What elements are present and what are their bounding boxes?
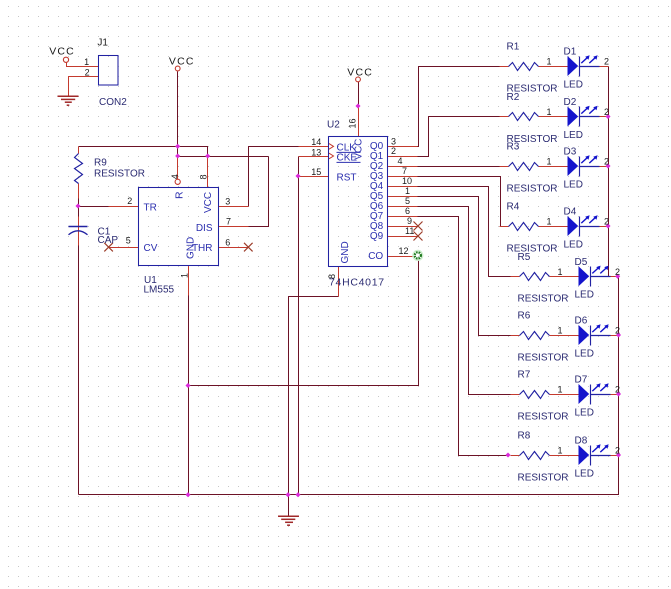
svg-text:LM555: LM555	[144, 284, 175, 295]
svg-text:7: 7	[402, 166, 407, 176]
svg-text:2: 2	[127, 196, 132, 206]
svg-text:2: 2	[604, 107, 609, 117]
svg-text:RESISTOR: RESISTOR	[518, 472, 569, 483]
svg-text:R2: R2	[507, 92, 520, 103]
svg-text:J1: J1	[97, 38, 108, 49]
svg-text:4: 4	[170, 174, 180, 179]
svg-text:1: 1	[558, 385, 563, 395]
svg-text:CON2: CON2	[99, 97, 127, 108]
svg-text:GND: GND	[340, 241, 351, 263]
svg-text:6: 6	[225, 237, 230, 247]
svg-text:D3: D3	[564, 147, 577, 158]
svg-text:LED: LED	[564, 179, 583, 190]
svg-text:1: 1	[547, 157, 552, 167]
svg-text:2: 2	[85, 67, 90, 77]
svg-text:1: 1	[558, 326, 563, 336]
svg-text:D7: D7	[575, 375, 588, 386]
svg-text:R9: R9	[94, 158, 107, 169]
svg-text:D8: D8	[575, 436, 588, 447]
svg-text:8: 8	[198, 174, 208, 179]
svg-text:D2: D2	[564, 97, 577, 108]
svg-text:R4: R4	[507, 202, 520, 213]
svg-text:2: 2	[604, 57, 609, 67]
svg-text:D6: D6	[575, 316, 588, 327]
svg-text:R1: R1	[507, 42, 520, 53]
svg-text:D5: D5	[575, 257, 588, 268]
svg-text:1: 1	[547, 217, 552, 227]
svg-text:LED: LED	[564, 239, 583, 250]
svg-text:1: 1	[405, 186, 410, 196]
svg-text:R: R	[173, 191, 185, 199]
svg-text:R6: R6	[518, 311, 531, 322]
svg-text:D4: D4	[564, 207, 577, 218]
svg-text:1: 1	[558, 267, 563, 277]
svg-text:LED: LED	[575, 348, 594, 359]
svg-text:12: 12	[399, 246, 409, 256]
svg-text:LED: LED	[575, 290, 594, 301]
svg-text:10: 10	[402, 176, 412, 186]
svg-text:CO: CO	[368, 251, 383, 262]
svg-text:1: 1	[84, 57, 89, 67]
svg-text:RESISTOR: RESISTOR	[518, 352, 569, 363]
svg-text:Q9: Q9	[370, 231, 384, 242]
svg-text:RESISTOR: RESISTOR	[507, 243, 558, 254]
svg-text:U2: U2	[327, 120, 340, 131]
svg-text:LED: LED	[564, 79, 583, 90]
svg-text:16: 16	[348, 118, 358, 128]
svg-text:TR: TR	[144, 203, 157, 214]
svg-text:2: 2	[615, 326, 620, 336]
svg-text:13: 13	[311, 147, 321, 157]
svg-text:GND: GND	[186, 237, 197, 259]
svg-text:VCC: VCC	[354, 139, 365, 160]
svg-text:3: 3	[225, 197, 230, 207]
svg-text:VCC: VCC	[347, 67, 373, 79]
svg-text:VCC: VCC	[203, 192, 214, 213]
svg-text:1: 1	[547, 57, 552, 67]
svg-text:RESISTOR: RESISTOR	[94, 169, 145, 180]
svg-text:RST: RST	[337, 172, 357, 183]
svg-text:RESISTOR: RESISTOR	[518, 294, 569, 305]
svg-text:R7: R7	[518, 370, 531, 381]
svg-text:6: 6	[405, 206, 410, 216]
svg-text:5: 5	[126, 236, 131, 246]
svg-text:7: 7	[226, 216, 231, 226]
svg-text:4: 4	[398, 156, 403, 166]
svg-text:11: 11	[405, 226, 414, 236]
svg-text:R8: R8	[518, 431, 531, 442]
svg-text:CAP: CAP	[98, 235, 119, 246]
svg-text:R3: R3	[507, 142, 520, 153]
svg-text:2: 2	[615, 446, 620, 456]
svg-text:RESISTOR: RESISTOR	[507, 183, 558, 194]
svg-text:15: 15	[311, 167, 321, 177]
svg-text:LED: LED	[575, 468, 594, 479]
svg-text:74HC4017: 74HC4017	[329, 276, 385, 288]
svg-text:5: 5	[405, 196, 410, 206]
svg-text:1: 1	[179, 273, 189, 278]
svg-text:1: 1	[558, 446, 563, 456]
svg-text:R5: R5	[518, 252, 531, 263]
svg-text:1: 1	[547, 107, 552, 117]
svg-text:RESISTOR: RESISTOR	[518, 411, 569, 422]
svg-text:VCC: VCC	[49, 46, 75, 58]
svg-text:CV: CV	[144, 243, 158, 254]
svg-text:14: 14	[311, 137, 321, 147]
svg-text:2: 2	[604, 157, 609, 167]
svg-text:9: 9	[407, 216, 412, 226]
svg-text:DIS: DIS	[196, 223, 213, 234]
svg-text:D1: D1	[564, 47, 577, 58]
svg-text:VCC: VCC	[169, 56, 195, 68]
svg-text:LED: LED	[575, 407, 594, 418]
svg-text:2: 2	[391, 146, 396, 156]
svg-text:8: 8	[327, 274, 337, 279]
svg-text:2: 2	[615, 385, 620, 395]
svg-text:2: 2	[604, 217, 609, 227]
svg-text:LED: LED	[564, 130, 583, 141]
svg-text:3: 3	[391, 136, 396, 146]
svg-text:2: 2	[615, 267, 620, 277]
